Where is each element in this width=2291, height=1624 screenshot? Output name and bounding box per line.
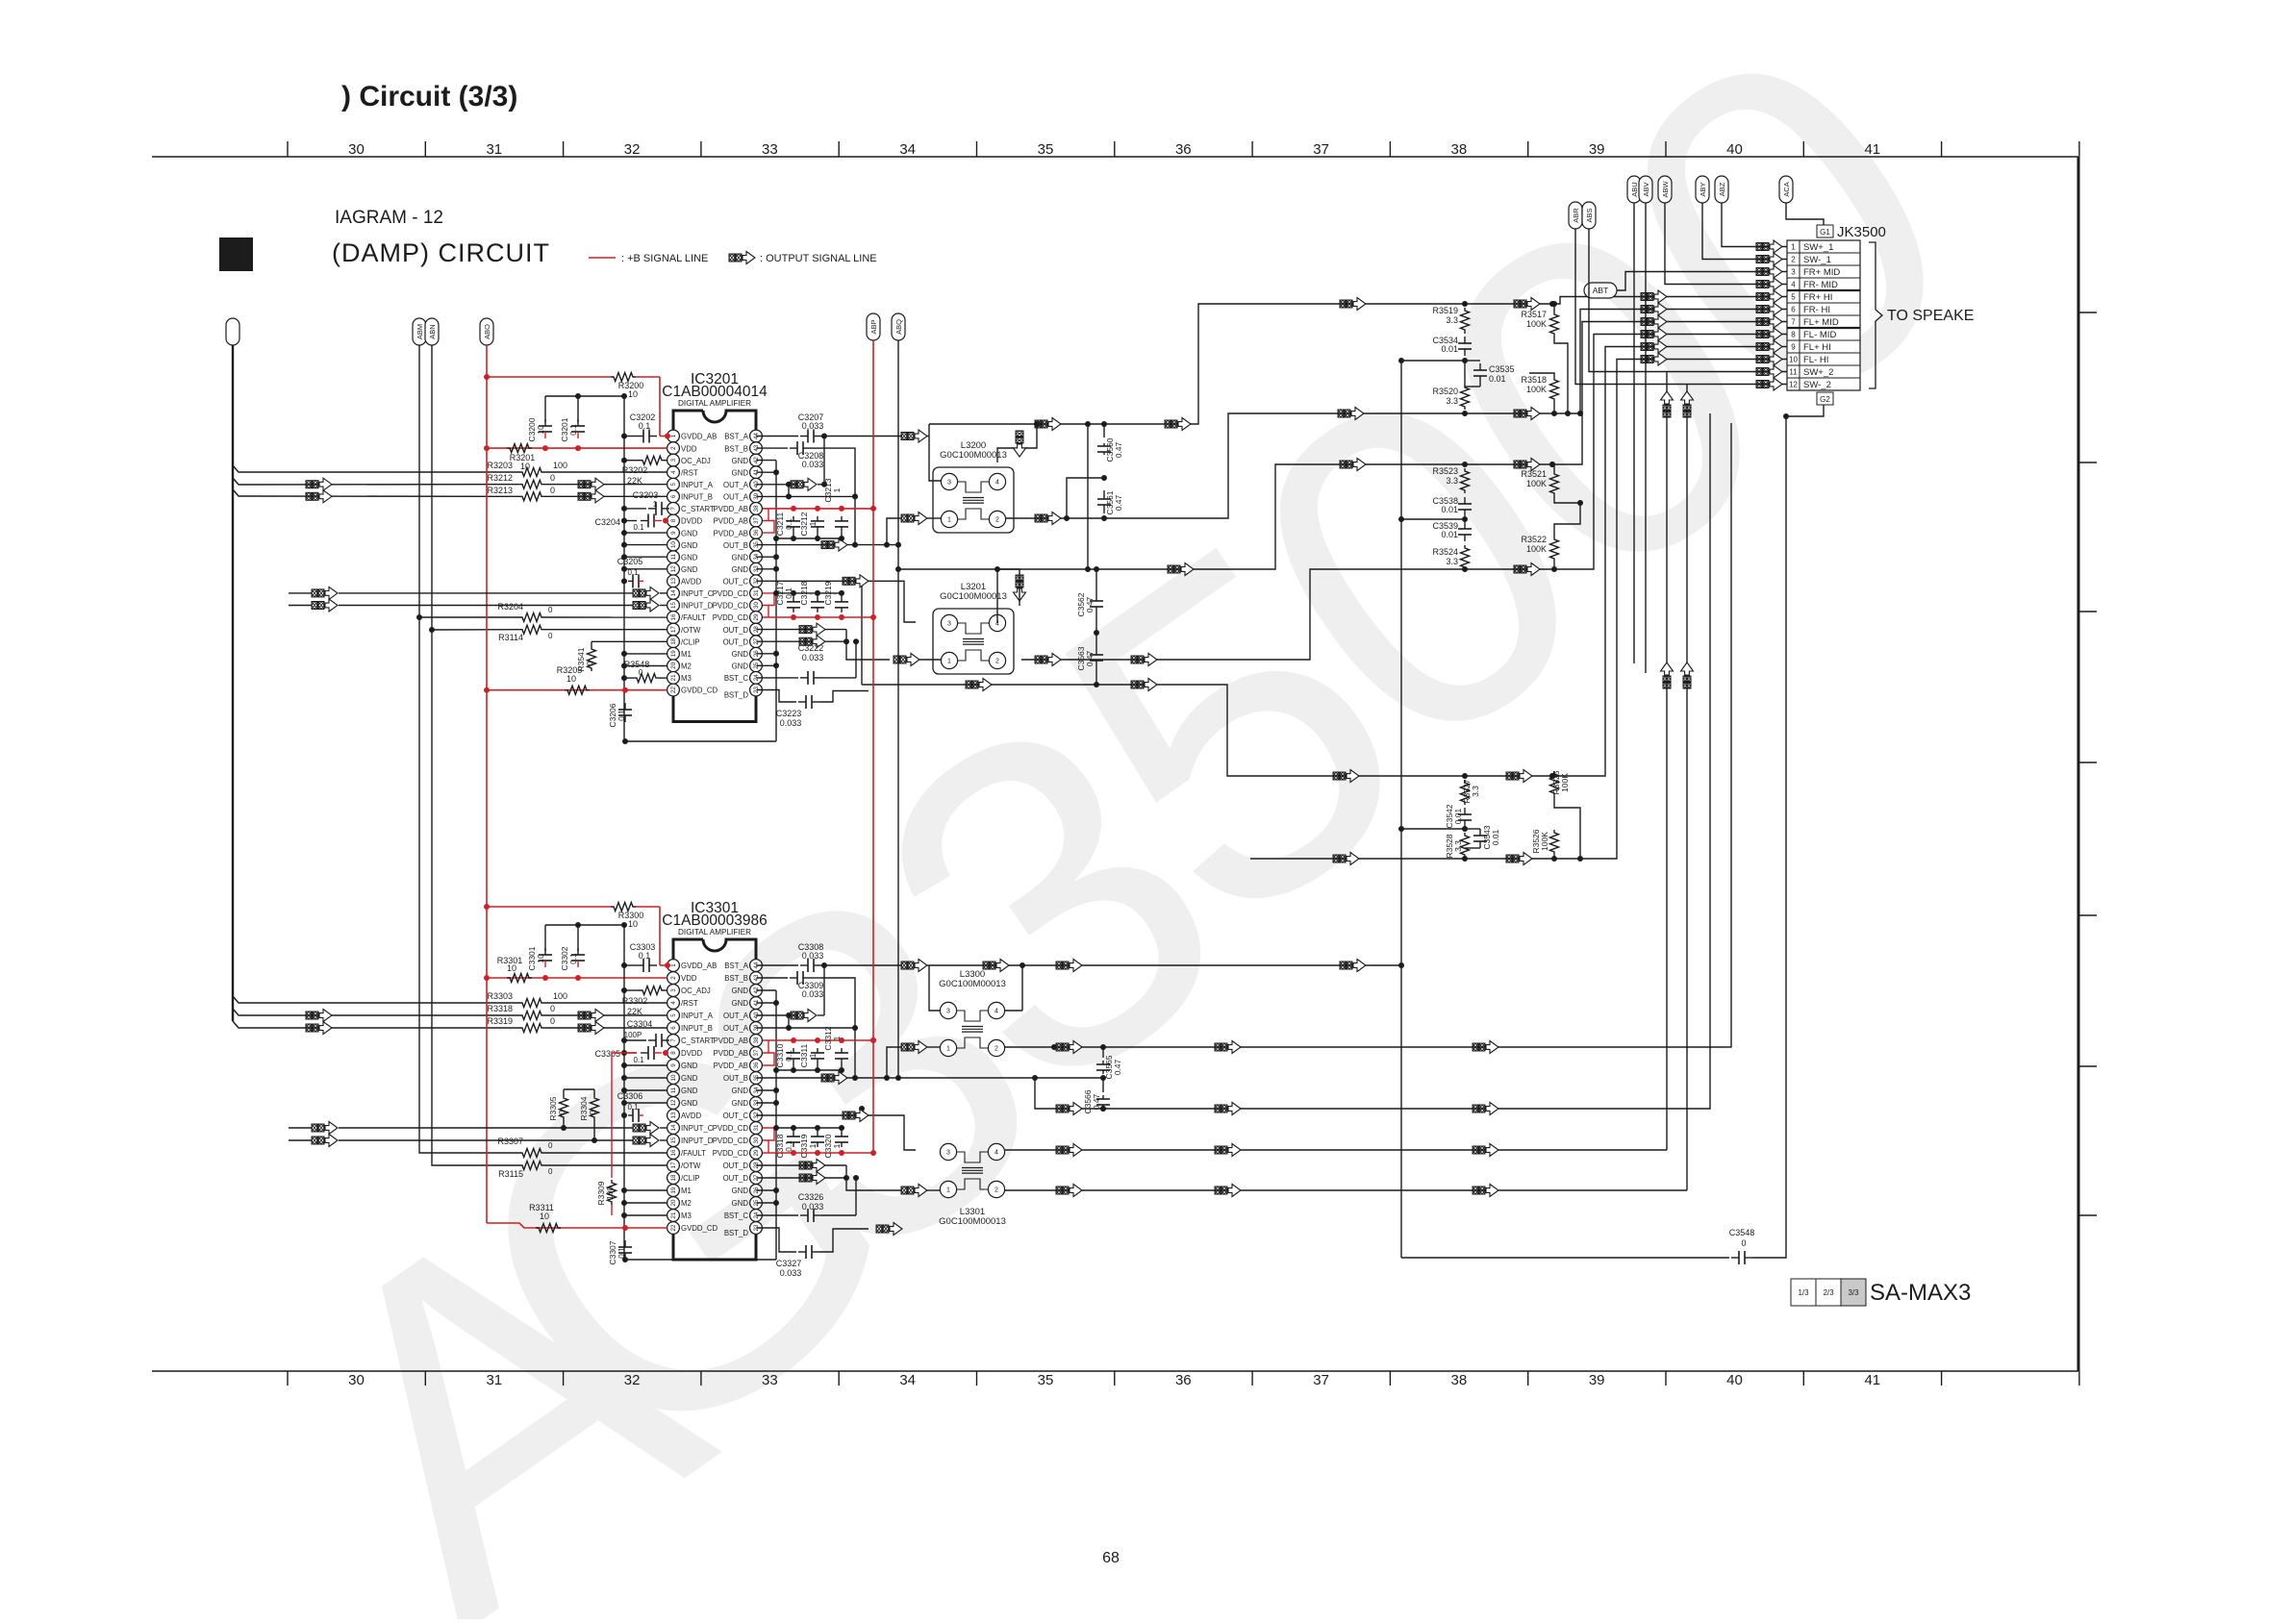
svg-text:INPUT_D: INPUT_D xyxy=(681,602,714,611)
connector tag ABU xyxy=(1627,176,1641,203)
IC3301 pin 31 PVDD_CD xyxy=(713,1122,763,1135)
svg-text:3/3: 3/3 xyxy=(1848,1288,1859,1297)
svg-text:ABR: ABR xyxy=(1572,208,1580,223)
svg-text:4: 4 xyxy=(994,1150,998,1157)
svg-text:100K: 100K xyxy=(1540,832,1549,851)
svg-text:M2: M2 xyxy=(681,662,692,671)
svg-text:13: 13 xyxy=(670,1112,677,1118)
diagonal arrow L3200 xyxy=(1014,431,1026,457)
gnd right bus IC3301 xyxy=(775,990,777,1260)
capacitor C3309 xyxy=(756,971,823,999)
svg-text:/FAULT: /FAULT xyxy=(681,1149,706,1158)
svg-text:36: 36 xyxy=(1175,141,1192,158)
arrow OUT_D 27 xyxy=(799,636,825,648)
svg-text:0: 0 xyxy=(550,486,555,495)
svg-text:29: 29 xyxy=(753,1149,760,1156)
svg-text:SW-_2: SW-_2 xyxy=(1803,380,1831,390)
arrow INPUT_C IC3201 b xyxy=(633,587,667,599)
arrow row8 xyxy=(1756,328,1782,340)
svg-text:M3: M3 xyxy=(681,1212,692,1220)
svg-text:0.47: 0.47 xyxy=(1092,1093,1101,1110)
wire ABW to row4 xyxy=(1665,203,1787,285)
capacitor C3201 xyxy=(560,417,585,441)
svg-text:2: 2 xyxy=(1791,256,1796,264)
capacitor C3560 xyxy=(1097,424,1123,462)
arrow OUT_D 28 xyxy=(799,623,825,636)
resistor R3212 xyxy=(487,473,667,488)
svg-text:7: 7 xyxy=(1791,318,1796,327)
arrow run5 b xyxy=(1514,298,1540,311)
IC3301 pin 13 AVDD xyxy=(667,1110,702,1122)
IC3301 pin 21 M3 xyxy=(667,1210,692,1222)
svg-text:IAGRAM - 12: IAGRAM - 12 xyxy=(335,208,443,228)
svg-text:35: 35 xyxy=(1038,1372,1054,1388)
junction ABN OTW tap xyxy=(429,627,519,633)
resistor R3520 xyxy=(1432,333,1469,410)
svg-text:OUT_B: OUT_B xyxy=(723,1074,748,1083)
svg-text:/CLIP: /CLIP xyxy=(681,637,700,646)
IC3201 pin 3 OC_ADJ xyxy=(667,454,711,466)
wire M1 3301 xyxy=(621,1187,667,1193)
gnd bottom rail IC3301 xyxy=(622,1257,776,1262)
IC3201 pin 18 /CLIP xyxy=(667,636,700,648)
wire OUT_A pin39 3301 xyxy=(756,1025,858,1031)
IC3201 pin 43 BST_B xyxy=(724,442,762,455)
svg-text:0.1: 0.1 xyxy=(627,1103,639,1112)
svg-text:R3518: R3518 xyxy=(1521,375,1547,385)
svg-text:GND: GND xyxy=(681,553,698,562)
speaker bracket xyxy=(1869,242,1882,388)
svg-text:GND: GND xyxy=(681,1099,698,1108)
svg-text:0.47: 0.47 xyxy=(1114,441,1123,458)
IC3201 pin 19 M1 xyxy=(667,647,692,660)
IC3301 pin 18 /CLIP xyxy=(667,1172,700,1185)
svg-text:/OTW: /OTW xyxy=(681,1162,701,1170)
wire ABY to row2 xyxy=(1702,203,1787,260)
svg-text:BST_C: BST_C xyxy=(724,674,748,683)
svg-text:G1: G1 xyxy=(1820,228,1830,237)
svg-text:BST_B: BST_B xyxy=(724,974,748,983)
IC3301 pin 14 INPUT_C xyxy=(667,1122,714,1135)
svg-text:PVDD_CD: PVDD_CD xyxy=(713,1137,749,1145)
bottom ruler xyxy=(152,1371,2079,1388)
svg-text:12: 12 xyxy=(1789,381,1798,389)
resistor R3201 xyxy=(507,444,535,471)
svg-text:3: 3 xyxy=(670,458,677,462)
svg-text:0.47: 0.47 xyxy=(1113,1059,1122,1075)
svg-text:41: 41 xyxy=(1864,1372,1880,1388)
svg-text:39: 39 xyxy=(1589,1372,1605,1388)
svg-text:GND: GND xyxy=(732,1099,749,1108)
svg-text:0: 0 xyxy=(550,1016,555,1026)
wire red PVDD_AB jog xyxy=(763,509,774,533)
wire vertical 1754 xyxy=(1686,385,1688,1191)
svg-text:38: 38 xyxy=(753,505,760,512)
svg-text:: OUTPUT SIGNAL LINE: : OUTPUT SIGNAL LINE xyxy=(760,253,877,264)
IC3301 pin 24 BST_C xyxy=(724,1210,763,1222)
sheet index boxes xyxy=(1791,1279,1866,1306)
arrow run5 a xyxy=(1340,298,1366,311)
svg-text:GND: GND xyxy=(681,1074,698,1083)
svg-text:) Circuit (3/3): ) Circuit (3/3) xyxy=(341,81,517,112)
svg-text:30: 30 xyxy=(348,1372,365,1388)
IC3301 pin 23 BST_D xyxy=(724,1222,763,1237)
connector tag ABO xyxy=(480,318,493,345)
wire OUT_A pin39 xyxy=(756,493,858,499)
capacitor C3562 xyxy=(1076,590,1103,617)
capacitor C3217 xyxy=(775,581,800,612)
junction 1643 523 xyxy=(1577,500,1583,506)
IC3201 pin 38 PVDD_AB xyxy=(714,503,763,515)
IC3201 pin 20 M2 xyxy=(667,660,692,672)
arrow run6 a xyxy=(1338,408,1364,420)
svg-text:100K: 100K xyxy=(1526,319,1547,329)
svg-text:C_START: C_START xyxy=(681,1037,715,1045)
svg-text:PVDD_AB: PVDD_AB xyxy=(714,529,748,537)
svg-text:0.01: 0.01 xyxy=(1489,374,1506,384)
svg-text:7: 7 xyxy=(670,507,677,511)
IC3201 pin 26 GND xyxy=(732,647,763,660)
IC3201 pin 8 DVDD xyxy=(667,514,703,527)
resistor R3300 xyxy=(611,903,643,930)
wire BST_A join xyxy=(821,424,941,487)
resistor R3318 xyxy=(487,1004,667,1020)
svg-text:1: 1 xyxy=(832,1143,842,1148)
arrow run9 d xyxy=(1506,770,1532,783)
connector tag ABR xyxy=(1569,202,1582,229)
wire M2 xyxy=(621,663,667,669)
wire OUT_B pin35 xyxy=(756,518,941,548)
IC3201 pin 6 INPUT_B xyxy=(667,490,713,503)
svg-text:PVDD_CD: PVDD_CD xyxy=(713,589,749,598)
svg-text:11: 11 xyxy=(670,553,677,560)
wire ABT to row3 xyxy=(1617,272,1787,291)
resistor R3525 xyxy=(1549,770,1583,862)
svg-text:R3524: R3524 xyxy=(1432,547,1458,557)
svg-text:100K: 100K xyxy=(1526,385,1547,394)
svg-text:0.033: 0.033 xyxy=(802,653,824,662)
svg-text:0.01: 0.01 xyxy=(1491,829,1500,845)
IC3201 pin 17 /OTW xyxy=(667,623,701,636)
wire OUT_D pin27 3301 xyxy=(756,1165,941,1197)
arrow run6 b xyxy=(1514,408,1540,420)
arrow run7 a xyxy=(1168,563,1194,576)
svg-text:30: 30 xyxy=(348,141,365,158)
IC3201 pin 22 GVDD_CD xyxy=(667,684,718,696)
gnd bottom rail IC3201 xyxy=(622,738,776,744)
svg-text:INPUT_B: INPUT_B xyxy=(681,1024,713,1033)
junction red R3200 row xyxy=(484,374,490,380)
svg-text:11: 11 xyxy=(670,1087,677,1093)
gnd bus IC3301 left xyxy=(623,925,625,1260)
svg-text:21: 21 xyxy=(670,674,677,681)
IC3301 pin 42 GND xyxy=(732,985,763,997)
IC3301 pin 12 GND xyxy=(667,1097,698,1110)
wire ABV down xyxy=(1645,203,1647,673)
svg-text:FL+ HI: FL+ HI xyxy=(1803,342,1831,353)
svg-text:R3319: R3319 xyxy=(487,1016,513,1026)
svg-text:1: 1 xyxy=(808,521,818,526)
svg-text:30: 30 xyxy=(753,1137,760,1143)
svg-text:1: 1 xyxy=(670,963,677,967)
IC3201 pin 33 GND xyxy=(732,562,763,575)
IC3301 pin 30 PVDD_CD xyxy=(713,1135,763,1147)
svg-text:C1AB00004014: C1AB00004014 xyxy=(662,384,768,400)
arrow BST_D 3301 xyxy=(876,1223,902,1236)
svg-text:GND: GND xyxy=(681,541,698,550)
IC3301 pin 8 DVDD xyxy=(667,1047,703,1060)
svg-text:R3202: R3202 xyxy=(622,465,648,475)
IC3201 pin 31 PVDD_CD xyxy=(713,587,763,600)
svg-text:OUT_A: OUT_A xyxy=(723,1012,749,1020)
svg-text:8: 8 xyxy=(1791,331,1796,339)
IC3301 pin 28 OUT_D xyxy=(723,1160,763,1172)
svg-text:20: 20 xyxy=(670,662,677,668)
wire OUT_B pin35 3301 xyxy=(756,1047,1106,1081)
svg-text:R3307: R3307 xyxy=(497,1137,523,1146)
wire OUT_A pin40 xyxy=(756,482,824,500)
black index square xyxy=(219,237,253,271)
svg-text:14: 14 xyxy=(670,589,677,596)
svg-text:16: 16 xyxy=(670,613,677,620)
svg-text:10: 10 xyxy=(536,954,545,963)
arrow INPUT_C IC3201 xyxy=(289,587,633,599)
svg-text:0.1: 0.1 xyxy=(568,953,578,964)
svg-text:38: 38 xyxy=(1451,1372,1468,1388)
svg-text:0: 0 xyxy=(548,1141,553,1150)
capacitor C3563 xyxy=(1076,644,1103,671)
svg-text:0.033: 0.033 xyxy=(802,989,824,999)
svg-text:GND: GND xyxy=(681,1087,698,1095)
svg-text:32: 32 xyxy=(624,141,641,158)
wire ABN vertical xyxy=(432,345,519,1165)
svg-text:37: 37 xyxy=(1313,1372,1329,1388)
wire red PVDD_AB jog 3301 xyxy=(763,1040,774,1065)
arrow INPUT_C IC3301 b xyxy=(633,1122,667,1135)
svg-text:1: 1 xyxy=(670,434,677,437)
wire CD cap top rail xyxy=(773,590,842,596)
capacitor C3200 xyxy=(527,417,552,441)
capacitor C3306 xyxy=(617,1091,643,1122)
junction C356x bottom xyxy=(1101,421,1107,521)
svg-text:100: 100 xyxy=(553,461,567,470)
wire GND 34 33 xyxy=(756,554,779,572)
svg-text:FL+ MID: FL+ MID xyxy=(1803,317,1839,328)
svg-text:C3223: C3223 xyxy=(776,709,802,718)
svg-text:19: 19 xyxy=(670,650,677,657)
svg-text:34: 34 xyxy=(899,141,916,158)
resistor R3528 xyxy=(1445,833,1470,859)
resistor R3204 xyxy=(497,602,667,622)
svg-text:GND: GND xyxy=(732,650,749,659)
IC3301 pin 16 /FAULT xyxy=(667,1147,706,1160)
svg-text:0.1: 0.1 xyxy=(633,1056,644,1064)
arrow up 1754 a xyxy=(1681,391,1694,417)
svg-text:0: 0 xyxy=(639,668,643,677)
IC3201 pin 21 M3 xyxy=(667,672,692,685)
wire red GVDD_AB feed xyxy=(487,377,667,437)
resistor R3527 xyxy=(1461,779,1481,805)
capacitor C3223 xyxy=(756,690,869,729)
IC3201 pin 11 GND xyxy=(667,551,698,563)
svg-text:PVDD_AB: PVDD_AB xyxy=(714,517,748,526)
svg-text:33: 33 xyxy=(762,141,778,158)
junction run7 xyxy=(1462,462,1555,467)
IC3301 pin 15 INPUT_D xyxy=(667,1135,714,1147)
svg-text:22: 22 xyxy=(670,1224,677,1231)
svg-text:3: 3 xyxy=(1791,268,1796,277)
wire left branch RST IC3201 xyxy=(233,465,519,472)
junction ABM FAULT tap xyxy=(416,614,519,620)
wire OUT_D pin27 xyxy=(756,630,890,660)
arrow L3300 bot a xyxy=(1056,1103,1082,1115)
IC3201 pin 9 GND xyxy=(667,527,698,539)
top ruler xyxy=(152,141,2079,158)
wire OUT_C pin32 3301 xyxy=(756,1106,916,1150)
wire M1 xyxy=(621,651,667,657)
arrow L3301 top a xyxy=(1056,1144,1082,1157)
connector tag ABY xyxy=(1696,176,1709,203)
svg-text:M2: M2 xyxy=(681,1199,692,1208)
wire ABS down xyxy=(1589,229,1667,372)
connector G2 box xyxy=(1817,392,1833,405)
capacitor C3539 xyxy=(1432,521,1472,541)
wire ABQ vertical xyxy=(895,340,901,1081)
wire ABR down xyxy=(1575,229,1687,385)
svg-text:31: 31 xyxy=(486,1372,502,1388)
svg-text:GND: GND xyxy=(732,468,749,477)
IC3301 pin 39 OUT_A xyxy=(723,1022,762,1035)
arrow L3301 bot a xyxy=(1056,1185,1082,1197)
svg-text:INPUT_B: INPUT_B xyxy=(681,493,713,502)
wire red PVDD_CD row xyxy=(763,614,873,620)
arrow INPUT_D IC3301 b xyxy=(633,1135,667,1147)
svg-text:GVDD_AB: GVDD_AB xyxy=(681,962,717,970)
IC3201 pin 1 GVDD_AB xyxy=(667,430,718,442)
wire cap bottoms AB xyxy=(773,532,844,541)
capacitor C3312 xyxy=(823,1026,848,1063)
svg-text:OUT_D: OUT_D xyxy=(723,637,749,646)
svg-text:GND: GND xyxy=(732,999,749,1008)
svg-text:VDD: VDD xyxy=(681,974,697,983)
capacitor C3319 xyxy=(799,1125,824,1159)
svg-text:6: 6 xyxy=(670,494,677,498)
svg-text:OUT_B: OUT_B xyxy=(723,541,748,550)
resistor R3541 xyxy=(576,641,667,671)
svg-text:34: 34 xyxy=(899,1372,916,1388)
wire red GVDD_CD row 3301 xyxy=(487,1223,667,1231)
wire red PVDD_AB row 3301 xyxy=(763,1037,876,1043)
svg-text:10: 10 xyxy=(507,963,516,973)
capacitor C3208 xyxy=(756,441,823,469)
capacitor C3205 xyxy=(617,557,643,587)
svg-text:3.3: 3.3 xyxy=(1453,840,1463,852)
IC3201 pin 44 BST_A xyxy=(724,430,762,442)
svg-text:38: 38 xyxy=(1451,141,1468,158)
svg-text:21: 21 xyxy=(670,1212,677,1218)
resistor R3548 xyxy=(621,660,667,683)
arrow run7 b xyxy=(1340,459,1366,471)
arrow up 1733 b xyxy=(1661,662,1674,688)
svg-text:C3535: C3535 xyxy=(1489,364,1515,374)
ic body IC3201 xyxy=(662,371,768,721)
label SA-MAX3 xyxy=(1870,1280,1971,1306)
capacitor C3204 xyxy=(594,514,668,533)
svg-text:0.033: 0.033 xyxy=(802,460,824,469)
svg-text:100P: 100P xyxy=(624,1031,642,1039)
svg-text:C3327: C3327 xyxy=(776,1259,802,1268)
svg-text:FR- HI: FR- HI xyxy=(1803,305,1830,315)
svg-text:10: 10 xyxy=(566,674,576,684)
wire left branch INPUT_A IC3301 xyxy=(233,1009,519,1015)
connector tag ABW xyxy=(1658,176,1672,203)
inductor L3200 xyxy=(933,440,1014,533)
arrow INPUT_A IC3201 xyxy=(306,478,604,490)
arrow L3300 top a xyxy=(1056,1041,1082,1054)
IC3201 pin 23 BST_D xyxy=(724,684,763,699)
IC3201 pin 4 /RST xyxy=(667,466,698,479)
svg-text:1: 1 xyxy=(832,1036,842,1040)
wire C3548 to border xyxy=(1752,416,1786,1258)
svg-text:12: 12 xyxy=(670,1099,677,1106)
wire left bus vertical xyxy=(232,345,234,1021)
svg-text:10: 10 xyxy=(1789,356,1798,364)
svg-text:0.033: 0.033 xyxy=(780,718,802,728)
wire run5 to row5 xyxy=(1552,297,1787,305)
wire run7 xyxy=(898,322,1787,570)
svg-text:PVDD_CD: PVDD_CD xyxy=(713,613,749,622)
IC3201 pin 5 INPUT_A xyxy=(667,478,714,490)
wire vertical 1733 xyxy=(1666,372,1668,1151)
svg-text:BST_D: BST_D xyxy=(724,1229,748,1237)
watermark AG335000 xyxy=(211,0,2039,1624)
svg-text:GND: GND xyxy=(732,1199,749,1208)
svg-text:INPUT_A: INPUT_A xyxy=(681,481,714,489)
svg-text:3.3: 3.3 xyxy=(1446,557,1458,566)
svg-text:0.1: 0.1 xyxy=(627,568,639,577)
arrow row9 pre xyxy=(1641,340,1667,353)
arrow up 1733 a xyxy=(1661,391,1674,417)
arrow row2 xyxy=(1756,253,1782,265)
svg-text:ABN: ABN xyxy=(428,324,437,338)
svg-text:PVDD_CD: PVDD_CD xyxy=(713,1149,749,1158)
svg-text:AVDD: AVDD xyxy=(681,578,701,587)
arrow L3200 bot a xyxy=(1035,512,1061,525)
capacitor C3326 xyxy=(756,1192,856,1222)
arrow OUT_C xyxy=(843,575,869,587)
arrow INPUT_D IC3201 xyxy=(289,599,633,612)
resistor R3200 xyxy=(611,373,643,400)
IC3301 pin 33 GND xyxy=(732,1097,763,1110)
resistor R3213 xyxy=(487,486,667,501)
svg-text:3: 3 xyxy=(947,480,951,487)
junction red pin1 3301 xyxy=(665,962,670,968)
arrow L3200 top b xyxy=(1165,418,1191,431)
IC3201 pin 24 BST_C xyxy=(724,672,763,685)
svg-text:OUT_D: OUT_D xyxy=(723,1174,749,1183)
svg-text:1: 1 xyxy=(808,1143,818,1148)
arrow L3300 in xyxy=(901,1041,927,1054)
svg-text:C3305: C3305 xyxy=(594,1049,620,1059)
wire red PVDD_CD row 3301 xyxy=(763,1150,873,1156)
capacitor C3548 xyxy=(1729,1228,1755,1264)
arrow INPUT_A IC3301 xyxy=(306,1010,604,1022)
svg-text:3: 3 xyxy=(946,1150,950,1157)
svg-text:PVDD_AB: PVDD_AB xyxy=(714,505,748,513)
capacitor C3561 xyxy=(1097,475,1123,515)
arrow row12 xyxy=(1756,378,1782,390)
svg-text:R3548: R3548 xyxy=(624,660,650,669)
